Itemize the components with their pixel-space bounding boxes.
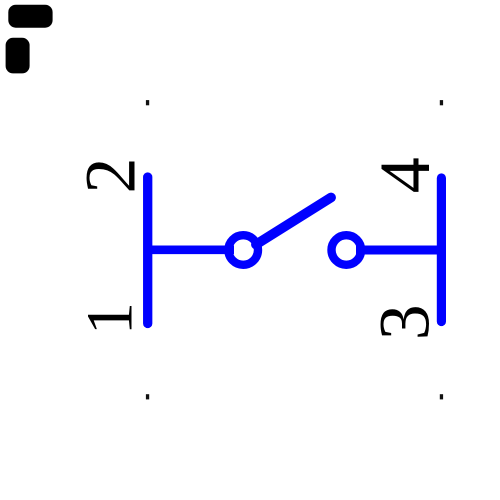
contact circle B — [332, 235, 362, 265]
corner mark (top horizontal bar) — [8, 5, 52, 28]
wire: right stub — [356, 246, 441, 255]
wire: left stub to contact — [148, 246, 234, 255]
wire: right vertical bar (pins 3-4 common) — [437, 178, 446, 322]
corner mark (vertical bar) — [6, 38, 30, 74]
svg-text:2: 2 — [71, 158, 151, 194]
contact circle A — [228, 235, 258, 265]
svg-text:4: 4 — [365, 157, 445, 193]
svg-text:3: 3 — [365, 304, 445, 340]
pin 2 endpoint marker — [146, 100, 149, 105]
pin 1 endpoint marker — [146, 394, 149, 399]
wire: left vertical bar (pins 1-2 common) — [143, 177, 152, 324]
pin 3 endpoint marker — [440, 394, 443, 399]
switch lever — [256, 198, 331, 245]
pin 4 endpoint marker — [440, 100, 443, 105]
svg-text:1: 1 — [74, 302, 147, 335]
